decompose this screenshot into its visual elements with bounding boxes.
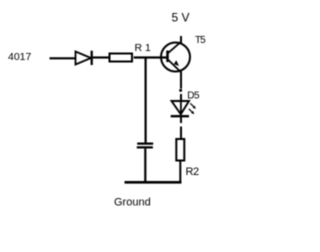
svg-text:R2: R2 [186,166,199,178]
wire to LED anode [180,94,182,101]
wire dash to R2 [180,127,182,139]
wire capacitor to ground [144,149,146,183]
wire collector stub to 5V [180,36,182,43]
wire R1 to transistor base [134,56,167,58]
wire diode to R1 [93,56,109,58]
svg-text:5 V: 5 V [172,11,190,25]
capacitor C1 [137,144,153,148]
wire input from 4017 [50,57,76,59]
wire emitter down [180,72,182,89]
ground rail [125,181,182,184]
svg-text:T5: T5 [195,35,206,46]
resistor R1 [110,54,133,62]
wire R2 to ground [179,162,181,184]
resistor R2 [176,139,184,161]
svg-text:D5: D5 [187,90,200,101]
diode D1 [76,51,92,65]
svg-text:R 1: R 1 [135,42,152,54]
svg-text:Ground: Ground [114,197,151,209]
transistor T5 [161,42,190,72]
wire LED cathode down [180,117,182,123]
LED D5 [171,101,196,116]
svg-text:4017: 4017 [8,51,32,63]
junction dot on emitter wire [179,89,182,92]
wire node down to capacitor [145,58,147,144]
